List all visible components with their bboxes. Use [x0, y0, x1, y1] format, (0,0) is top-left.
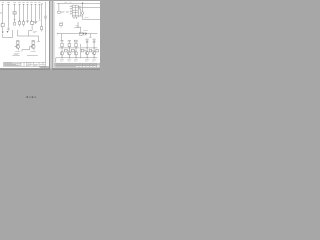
frame note box: [45, 16, 47, 18]
wire net W2 (long horizontal bus): [18, 30, 40, 41]
T3 ref text: [74, 60, 78, 61]
T5 ref text: [92, 60, 96, 61]
base resistor RB4: [89, 49, 93, 52]
gap between sheets: [49, 1, 52, 69]
net label text above VCC7: [30, 2, 32, 4]
wire net W4 (Q2 base run): [22, 47, 30, 52]
capacitor C1 on VCC6: [26, 20, 28, 23]
T4 ref text: [85, 60, 89, 61]
C3 label text: [86, 38, 89, 40]
wire net W1 (U2 output dogleg): [29, 24, 33, 36]
junction dot N8: [62, 57, 63, 58]
transistor stage T5: [92, 44, 96, 57]
ground arrow G2: [7, 31, 9, 33]
wire net W3 (left horizontal): [3, 30, 13, 38]
K2 label text: [83, 30, 88, 32]
value text row right: [27, 55, 38, 57]
transistor stage Q1 (left): [15, 41, 20, 51]
note text above title block: [14, 53, 20, 54]
power flag VCC2: [8, 4, 10, 26]
base resistor RB5: [95, 49, 98, 52]
power flag VCC9: [38, 4, 40, 19]
capacitor C4: [93, 40, 96, 45]
regulator U1 box: [13, 12, 16, 14]
title block sheet2: [55, 63, 100, 67]
transistor Q1: [16, 45, 20, 49]
resistor R3 on VCC10: [41, 27, 43, 32]
net label text above VCC9: [38, 2, 40, 4]
title block sheet1 corner cell A: [40, 66, 45, 68]
net label text above VCC3: [13, 2, 15, 4]
junction dot N4: [82, 3, 83, 4]
junction dot N7: [86, 33, 87, 34]
net label text above VCC1: [2, 2, 4, 4]
junction dot N10: [76, 57, 77, 58]
ground arrow G1: [2, 32, 4, 34]
left sheet right edge: [48, 1, 51, 69]
junction dot N9: [69, 57, 70, 58]
junction dot N5: [77, 27, 78, 28]
wire net W11 (x80.7 drop to bottom): [80, 44, 82, 58]
Q1 ref text: [15, 51, 20, 53]
transistor stage T1: [60, 41, 64, 58]
transistor T4: [85, 51, 89, 55]
title block sheet1: [4, 62, 46, 66]
junction dot N14: [69, 47, 70, 48]
status bar page icon: [27, 96, 28, 98]
resistor R2 on VCC5: [23, 21, 25, 26]
wire net W9 (mid bus): [57, 33, 97, 41]
U2 value text: [35, 22, 39, 23]
transistor stage T3: [74, 40, 78, 58]
T2 tap label text: [68, 41, 71, 43]
J2 left label text: [66, 12, 69, 13]
power flag VCC7: [31, 4, 33, 21]
resistor R6: [61, 43, 63, 46]
Q1 top power tap: [16, 40, 19, 43]
J1 pin text: [0, 24, 1, 26]
Q2 ref text: [31, 51, 36, 53]
power flag VCC8: [35, 4, 37, 21]
fuse F1 (circle symbol): [81, 2, 84, 20]
power flag VCC4: [19, 4, 21, 21]
T3 tap label text: [75, 41, 78, 43]
junction dot N3: [31, 20, 32, 21]
title block sheet1 corner cell B: [44, 66, 48, 68]
connector J2 grid: [72, 5, 78, 17]
junction dot N13: [62, 47, 63, 48]
J2 pin number text: [70, 6, 72, 14]
resistor R8: [75, 43, 77, 46]
emitter bus W12: [56, 58, 98, 63]
power flag VCC1: [2, 4, 4, 24]
W8 label text: [75, 24, 78, 26]
Q1 base wire: [15, 46, 17, 48]
base resistor RB1: [64, 49, 69, 52]
power flag VCC5: [23, 4, 25, 21]
transistor T5: [92, 51, 96, 55]
transistor T3: [74, 52, 78, 56]
IC U2 box with label: [30, 21, 33, 24]
diode D1: [7, 26, 9, 31]
wire net W7 (bus C): [83, 19, 100, 21]
power flag VCC6: [27, 4, 29, 19]
title block sheet2 text: [55, 64, 96, 67]
base resistor RB3: [81, 49, 87, 52]
S1 label text: [60, 21, 64, 23]
status bar page number: [32, 96, 34, 97]
T1 ref text: [60, 60, 64, 61]
T1 power tap: [60, 41, 63, 44]
net label text above VCC10: [41, 2, 43, 4]
wire net W8 (T drop): [74, 22, 80, 34]
relay K2 cluster: [79, 32, 86, 35]
resistor R1 on VCC4: [19, 21, 21, 26]
capacitor C3: [86, 40, 89, 45]
net stub text near VCC9 end: [39, 20, 41, 22]
transistor Q2: [31, 45, 35, 49]
power flag VCC10: [41, 5, 43, 27]
wire net W5 (top bus A): [57, 3, 100, 11]
transistor stage T2: [68, 41, 72, 58]
net label text above VCC6: [26, 2, 28, 4]
viewer background: [0, 0, 100, 100]
battery B1 box: [58, 11, 61, 13]
T3 power tap flag: [74, 40, 77, 42]
right schematic sheet (page 2): [53, 1, 100, 69]
Q2 top power tap: [32, 40, 35, 43]
status bar prev arrow: [29, 97, 30, 98]
resistor R5: [32, 41, 34, 44]
base resistor RB2: [71, 49, 75, 52]
wire net W10 (drop at x90): [89, 34, 91, 38]
T2 ref text: [67, 60, 71, 61]
net label text above VCC2: [7, 2, 9, 4]
sensor S1 small box: [60, 23, 63, 27]
corner cell text: [41, 66, 48, 68]
connector J1 (left margin): [1, 23, 4, 31]
junction dot N11: [87, 57, 88, 58]
title block sheet1 text: [4, 63, 45, 66]
W7 label text: [85, 17, 89, 19]
power flag VCC3: [14, 4, 16, 11]
T2 power tap: [68, 41, 71, 44]
U1 value text: [13, 12, 16, 15]
T1 tap label text: [61, 41, 64, 43]
junction dot N17: [94, 47, 95, 48]
sheet1 frame right border: [45, 2, 47, 62]
C4 label text: [93, 38, 96, 40]
junction dot N15: [76, 47, 77, 48]
component cluster K1 (x14-16): [14, 14, 16, 25]
net label text above VCC5: [22, 2, 24, 4]
right sheet left edge: [52, 1, 55, 69]
junction dot N6: [83, 33, 84, 34]
resistor R7: [68, 43, 70, 46]
net label text on W2: [33, 31, 37, 34]
transistor T1: [60, 52, 64, 56]
left sheet bottom edge: [0, 67, 50, 70]
J2 pin stubs: [70, 6, 82, 19]
left schematic sheet (page 1): [0, 1, 49, 69]
status bar next arrow: [35, 97, 36, 98]
Q2 base wire: [30, 46, 33, 48]
net label text above VCC4: [18, 2, 20, 4]
sheet2 frame left border: [54, 2, 56, 67]
resistor R4: [17, 41, 19, 44]
junction dot N12: [94, 57, 95, 58]
net label text on bus A: [65, 1, 72, 3]
junction dot N16: [87, 47, 88, 48]
net label text above VCC8: [34, 2, 36, 4]
B1 label text: [61, 12, 65, 13]
transistor stage Q2 (right): [30, 41, 36, 51]
collector bus W13: [59, 47, 98, 49]
value text row left: [12, 55, 19, 57]
wire net W6 (bus B): [78, 7, 100, 9]
right sheet bottom edge: [53, 67, 100, 70]
junction dot N1: [19, 20, 20, 21]
net label text left margin: [0, 11, 2, 14]
transistor T2: [68, 52, 72, 56]
junction dot N2: [23, 20, 24, 21]
capacitor C2 on VCC8: [34, 22, 36, 24]
transistor stage T4: [85, 44, 89, 57]
